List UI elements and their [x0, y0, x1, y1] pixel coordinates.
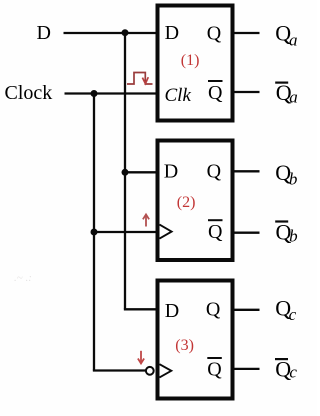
svg-text:.~ .:: .~ .: [14, 272, 32, 284]
U3 clock inversion bubble [146, 367, 154, 375]
svg-text:Q: Q [207, 358, 222, 380]
U3 clock edge triangle [160, 364, 172, 377]
flip-flop U3 box [158, 281, 233, 399]
wire U3 Q output [233, 309, 260, 311]
svg-text:(3): (3) [175, 337, 194, 354]
wire Clock bus to U3 clock pin [94, 369, 146, 370]
svg-text:Clk: Clk [165, 85, 192, 106]
node Qa-bar output label [275, 81, 288, 83]
wire U3 Qbar output [233, 368, 260, 370]
wire U1 Qbar output [233, 91, 260, 93]
U1 pin label Qbar overline [208, 80, 223, 82]
wire D bus to U2 pin D [125, 171, 157, 173]
wire D bus to U3 pin D [125, 308, 157, 309]
wire U2 Q output [233, 170, 260, 172]
node Qb-bar output label [275, 220, 288, 222]
rising edge arrow U2 [143, 214, 149, 226]
svg-text:c: c [289, 363, 297, 382]
svg-text:Q: Q [208, 82, 223, 104]
svg-text:D: D [165, 300, 179, 322]
svg-text:c: c [289, 305, 297, 324]
wire U2 Qbar output [233, 232, 260, 234]
svg-text:D: D [165, 22, 179, 44]
clock pulse symbol U1 [127, 73, 153, 85]
falling edge arrow U3 [138, 351, 144, 364]
svg-text:D: D [37, 22, 51, 44]
wire Clock input to U1 pin Clk [65, 92, 158, 94]
svg-text:Q: Q [208, 221, 223, 243]
flip-flop U2 box [158, 141, 233, 261]
svg-text:Clock: Clock [5, 82, 53, 104]
wire Clock vertical bus [93, 94, 95, 371]
wire Clock bus to U2 clock pin [94, 231, 157, 233]
svg-text:a: a [289, 88, 298, 107]
junction Clock line [91, 90, 98, 97]
wire D vertical bus [124, 33, 126, 309]
svg-text:D: D [164, 161, 178, 183]
svg-text:(1): (1) [181, 52, 200, 69]
junction D line [122, 29, 129, 36]
U3 pin label Qbar overline [207, 357, 222, 359]
falling edge arrowhead U1 [142, 77, 148, 83]
svg-text:b: b [289, 227, 298, 246]
junction D bus to U2 [122, 169, 129, 176]
node Qc-bar output label [275, 358, 288, 360]
wire D input to U1 pin D [64, 32, 158, 34]
svg-text:(2): (2) [177, 194, 196, 211]
junction Clock bus to U2 [91, 229, 98, 236]
svg-text:Q: Q [207, 160, 222, 182]
svg-text:b: b [289, 170, 298, 189]
wire U1 Q output [233, 32, 260, 34]
U2 pin label Qbar overline [208, 219, 223, 221]
svg-text:Q: Q [206, 299, 221, 321]
U2 clock edge triangle [160, 225, 172, 239]
flip-flop U1 box [158, 6, 233, 121]
svg-text:Q: Q [207, 23, 222, 45]
svg-text:a: a [289, 30, 298, 49]
